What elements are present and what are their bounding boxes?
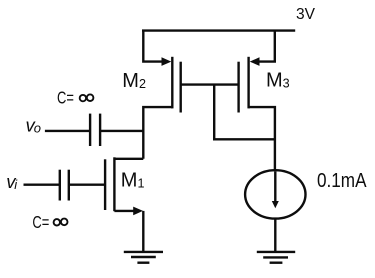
transistor M3	[239, 57, 249, 113]
wire M2 drain / output node	[143, 107, 172, 159]
wire vo	[45, 130, 143, 132]
label vo	[26, 114, 42, 135]
wire VDD rail	[142, 29, 295, 31]
current source I 0.1mA	[245, 170, 305, 218]
wire vi / M1 gate	[24, 183, 106, 185]
capacitor C (output)	[90, 114, 100, 146]
svg-text:C=: C=	[57, 87, 74, 107]
label 0.1mA	[317, 170, 367, 192]
wire current source to ground	[274, 218, 276, 251]
svg-text:C=: C=	[32, 212, 49, 232]
svg-text:3V: 3V	[296, 6, 315, 23]
svg-text:M1: M1	[121, 170, 145, 192]
label M1	[121, 170, 145, 192]
ground (M1)	[124, 252, 163, 263]
transistor M2	[172, 57, 180, 113]
label M3	[266, 70, 290, 92]
svg-text:i: i	[14, 177, 18, 192]
label vi	[6, 171, 18, 192]
svg-text:o: o	[34, 120, 41, 135]
wire M1 source (arrow out) to ground	[114, 207, 143, 251]
ground (current source)	[257, 252, 295, 263]
capacitor C (input)	[60, 170, 69, 201]
transistor M1	[105, 157, 114, 211]
label M2	[122, 70, 146, 92]
label C=inf (output)	[57, 87, 93, 107]
wire gate bus M2-M3	[181, 83, 239, 85]
wire M1 drain	[114, 158, 143, 160]
wire M3 source (from rail, arrow into M3)	[250, 30, 275, 66]
label 3V	[296, 6, 315, 23]
svg-text:0.1mA: 0.1mA	[317, 170, 367, 192]
svg-text:M3: M3	[266, 70, 290, 92]
wire M2 source (from rail, arrow into M2)	[143, 30, 171, 66]
wire M3 drain to current source	[249, 107, 275, 170]
wire gate to M3 drain (diode connection)	[214, 85, 275, 140]
svg-text:M2: M2	[122, 70, 146, 92]
label C=inf (input)	[32, 212, 67, 232]
